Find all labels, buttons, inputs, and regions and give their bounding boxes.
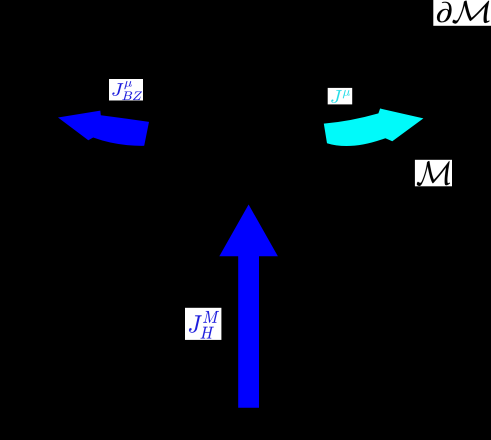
label box J_BZ [109,79,143,101]
label box J^M_H [185,308,221,340]
label text script-M [417,161,450,186]
label box M (manifold) [415,160,452,187]
arrow J_mu (cyan, pointing upper-right) [324,109,424,147]
label box dM (boundary of M) [433,0,491,26]
arrow J_H (blue, vertical pointing up) [219,205,278,408]
arrow J_BZ (blue, pointing upper-left) [58,111,149,146]
label text partial-M [437,1,490,24]
label text J^M_H [189,311,219,338]
label text J^mu [331,90,350,103]
label box J^mu [328,88,353,105]
label text J^mu_BZ [112,81,142,100]
